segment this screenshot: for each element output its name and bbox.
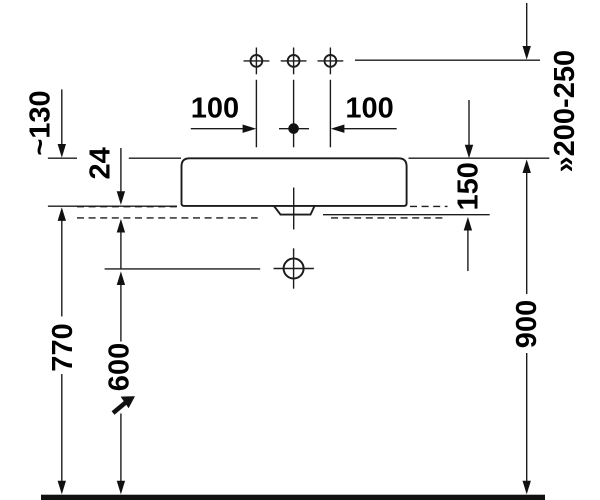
svg-text:900: 900 — [511, 300, 543, 348]
hidden console top dashed right — [410, 205, 448, 207]
dimension line 100 left — [191, 128, 252, 130]
dimension line ~130 — [61, 89, 63, 145]
arrowhead 770 at floor pointing down — [58, 481, 66, 495]
dimension 600 main line upper part — [120, 284, 122, 342]
svg-text:»200-250: »200-250 — [549, 50, 581, 173]
arrowhead 200-250 pointing down — [523, 46, 531, 60]
svg-text:150: 150 — [452, 162, 484, 210]
svg-text:770: 770 — [47, 323, 79, 371]
dimension 900 line lower part — [526, 353, 528, 482]
shelf edge line right — [323, 214, 490, 216]
dimension line 100 right — [336, 128, 397, 130]
svg-text:24: 24 — [85, 147, 117, 179]
centerline below center tap hole — [293, 80, 295, 148]
dimension 770 line lower part — [61, 374, 63, 482]
svg-text:100: 100 — [191, 92, 239, 124]
dimension 150 lower arrow line — [467, 231, 469, 272]
overflow drain hole circle — [274, 248, 314, 288]
dimension line 24 — [120, 148, 122, 192]
dimension 600 main line lower part — [120, 414, 122, 483]
arrowhead 900 at rim line pointing up — [523, 159, 531, 173]
arrowhead 900 at floor pointing down — [523, 481, 531, 495]
rim level reference line left segment a — [48, 157, 77, 159]
rim level reference line left segment b — [129, 157, 181, 159]
arrowhead 100 left pointing right — [243, 125, 257, 133]
arrowhead 150 lower pointing up — [464, 217, 472, 231]
height adjustability arrow — [112, 396, 135, 415]
dimension arrow line 200-250 — [526, 3, 528, 48]
arrowhead 600 at hidden console dashed pointing up — [117, 219, 125, 233]
svg-text:600: 600 — [104, 343, 136, 391]
drain height reference line — [105, 268, 261, 270]
hidden console top dashed left — [77, 206, 178, 208]
floor line — [41, 495, 545, 500]
arrowhead 600 at floor pointing down — [117, 481, 125, 495]
tap hole circle left — [244, 48, 270, 75]
dimension 900 line upper part — [526, 172, 528, 295]
arrowhead ~130 pointing down — [58, 144, 66, 158]
drain fitting under basin — [274, 206, 315, 215]
basin vertical centerline — [293, 188, 295, 230]
arrowhead 770 at console pointing up — [58, 207, 66, 221]
tap hole circle right — [318, 48, 344, 75]
hidden console bottom dashed right — [331, 217, 444, 219]
wall reference line top right — [355, 59, 540, 61]
faucet center dot — [288, 123, 299, 134]
rim level reference line right — [409, 157, 550, 159]
dimension 770 line upper part — [61, 220, 63, 317]
svg-text:~130: ~130 — [25, 90, 57, 155]
centerline below left tap hole — [255, 80, 257, 148]
tap hole circle center — [281, 48, 307, 75]
dimension 600 upper segment line — [120, 232, 122, 269]
short line through center dot — [279, 128, 309, 130]
arrowhead 600 at drain line pointing up — [117, 271, 125, 285]
centerline below right tap hole — [329, 80, 331, 148]
console top line left — [48, 205, 177, 207]
arrowhead 24 pointing down — [117, 191, 125, 205]
arrowhead 100 right pointing left — [331, 125, 345, 133]
svg-text:100: 100 — [345, 92, 393, 124]
arrowhead 150 upper pointing down — [465, 145, 473, 159]
washbasin outline — [182, 158, 407, 206]
hidden console bottom dashed left — [77, 217, 258, 219]
dimension 150 upper arrow line — [468, 100, 470, 146]
